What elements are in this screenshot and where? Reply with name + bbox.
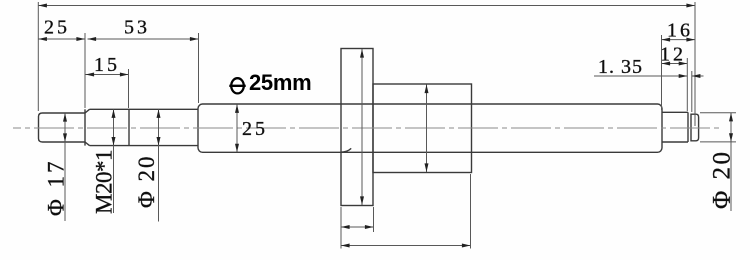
svg-text:Φ 20: Φ 20 <box>134 154 159 208</box>
circlip groove line 2 <box>690 114 692 142</box>
dimension 25 (left) <box>38 38 85 40</box>
section boundary M20/Φ20 <box>128 109 130 145</box>
svg-text:Φ 17: Φ 17 <box>44 158 69 216</box>
svg-text:12: 12 <box>660 44 686 66</box>
dimension 16 <box>662 39 696 41</box>
dimension 1.35 <box>594 75 687 77</box>
nut length dim (bottom) <box>341 245 471 247</box>
extension x=687.3 <box>686 58 688 111</box>
dimension 53 <box>88 38 199 40</box>
ballnut body <box>373 84 472 173</box>
svg-text:25mm: 25mm <box>249 70 311 95</box>
dia dim M20 <box>113 109 115 213</box>
centerline <box>13 127 720 129</box>
end disc <box>691 114 699 141</box>
dimension 12 <box>662 63 688 65</box>
extension x=661.5 <box>661 35 663 110</box>
svg-text:1. 35: 1. 35 <box>598 56 643 78</box>
svg-text:25: 25 <box>242 118 268 140</box>
extension line left end <box>37 2 39 111</box>
thread chamfer M20 left <box>85 109 90 145</box>
extension flange right <box>373 207 375 232</box>
svg-text:25: 25 <box>44 17 70 39</box>
step face at x=85 <box>84 109 86 145</box>
thread runout curve at flange <box>341 148 351 152</box>
extension nut right <box>470 174 472 249</box>
screw body shaft Φ25 <box>198 104 662 152</box>
circlip groove line 1 <box>687 112 689 142</box>
right journal dia dim Φ20 <box>700 112 736 114</box>
extension flange left <box>340 207 342 249</box>
svg-text:16: 16 <box>667 20 693 42</box>
shared extension line x=85 <box>84 33 86 108</box>
extension x=691.8 <box>691 71 693 112</box>
svg-text:53: 53 <box>124 17 150 39</box>
M20 / Φ20 bottom edge <box>90 145 199 147</box>
svg-text:M20*1: M20*1 <box>92 150 117 214</box>
right journal top edge <box>662 111 688 113</box>
extension line x=198.5 <box>198 33 200 103</box>
flange width dim (bottom) <box>341 226 374 228</box>
left journal Φ17 <box>39 113 86 142</box>
nut OD dim <box>426 85 428 173</box>
M20 / Φ20 top edge <box>90 108 199 110</box>
right journal bottom edge <box>662 141 688 143</box>
extension line x=128.5 <box>128 69 130 108</box>
dia dim 25 screw <box>236 104 238 152</box>
svg-text:Φ 20: Φ 20 <box>709 149 736 209</box>
dia dim Φ20 left <box>158 109 160 221</box>
overall length dimension line (top) <box>38 5 695 7</box>
dia dim Φ17 <box>64 113 66 221</box>
extension line right end <box>694 2 696 126</box>
ballnut flange <box>341 49 373 206</box>
svg-text:15: 15 <box>94 54 120 76</box>
dimension 15 <box>86 74 129 76</box>
label Φ25mm bold <box>229 70 311 95</box>
flange OD dim <box>361 49 363 205</box>
